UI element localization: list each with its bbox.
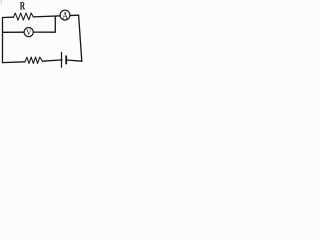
svg-text:V: V: [26, 28, 31, 38]
svg-text:A: A: [62, 10, 68, 21]
svg-text:R: R: [20, 1, 25, 13]
